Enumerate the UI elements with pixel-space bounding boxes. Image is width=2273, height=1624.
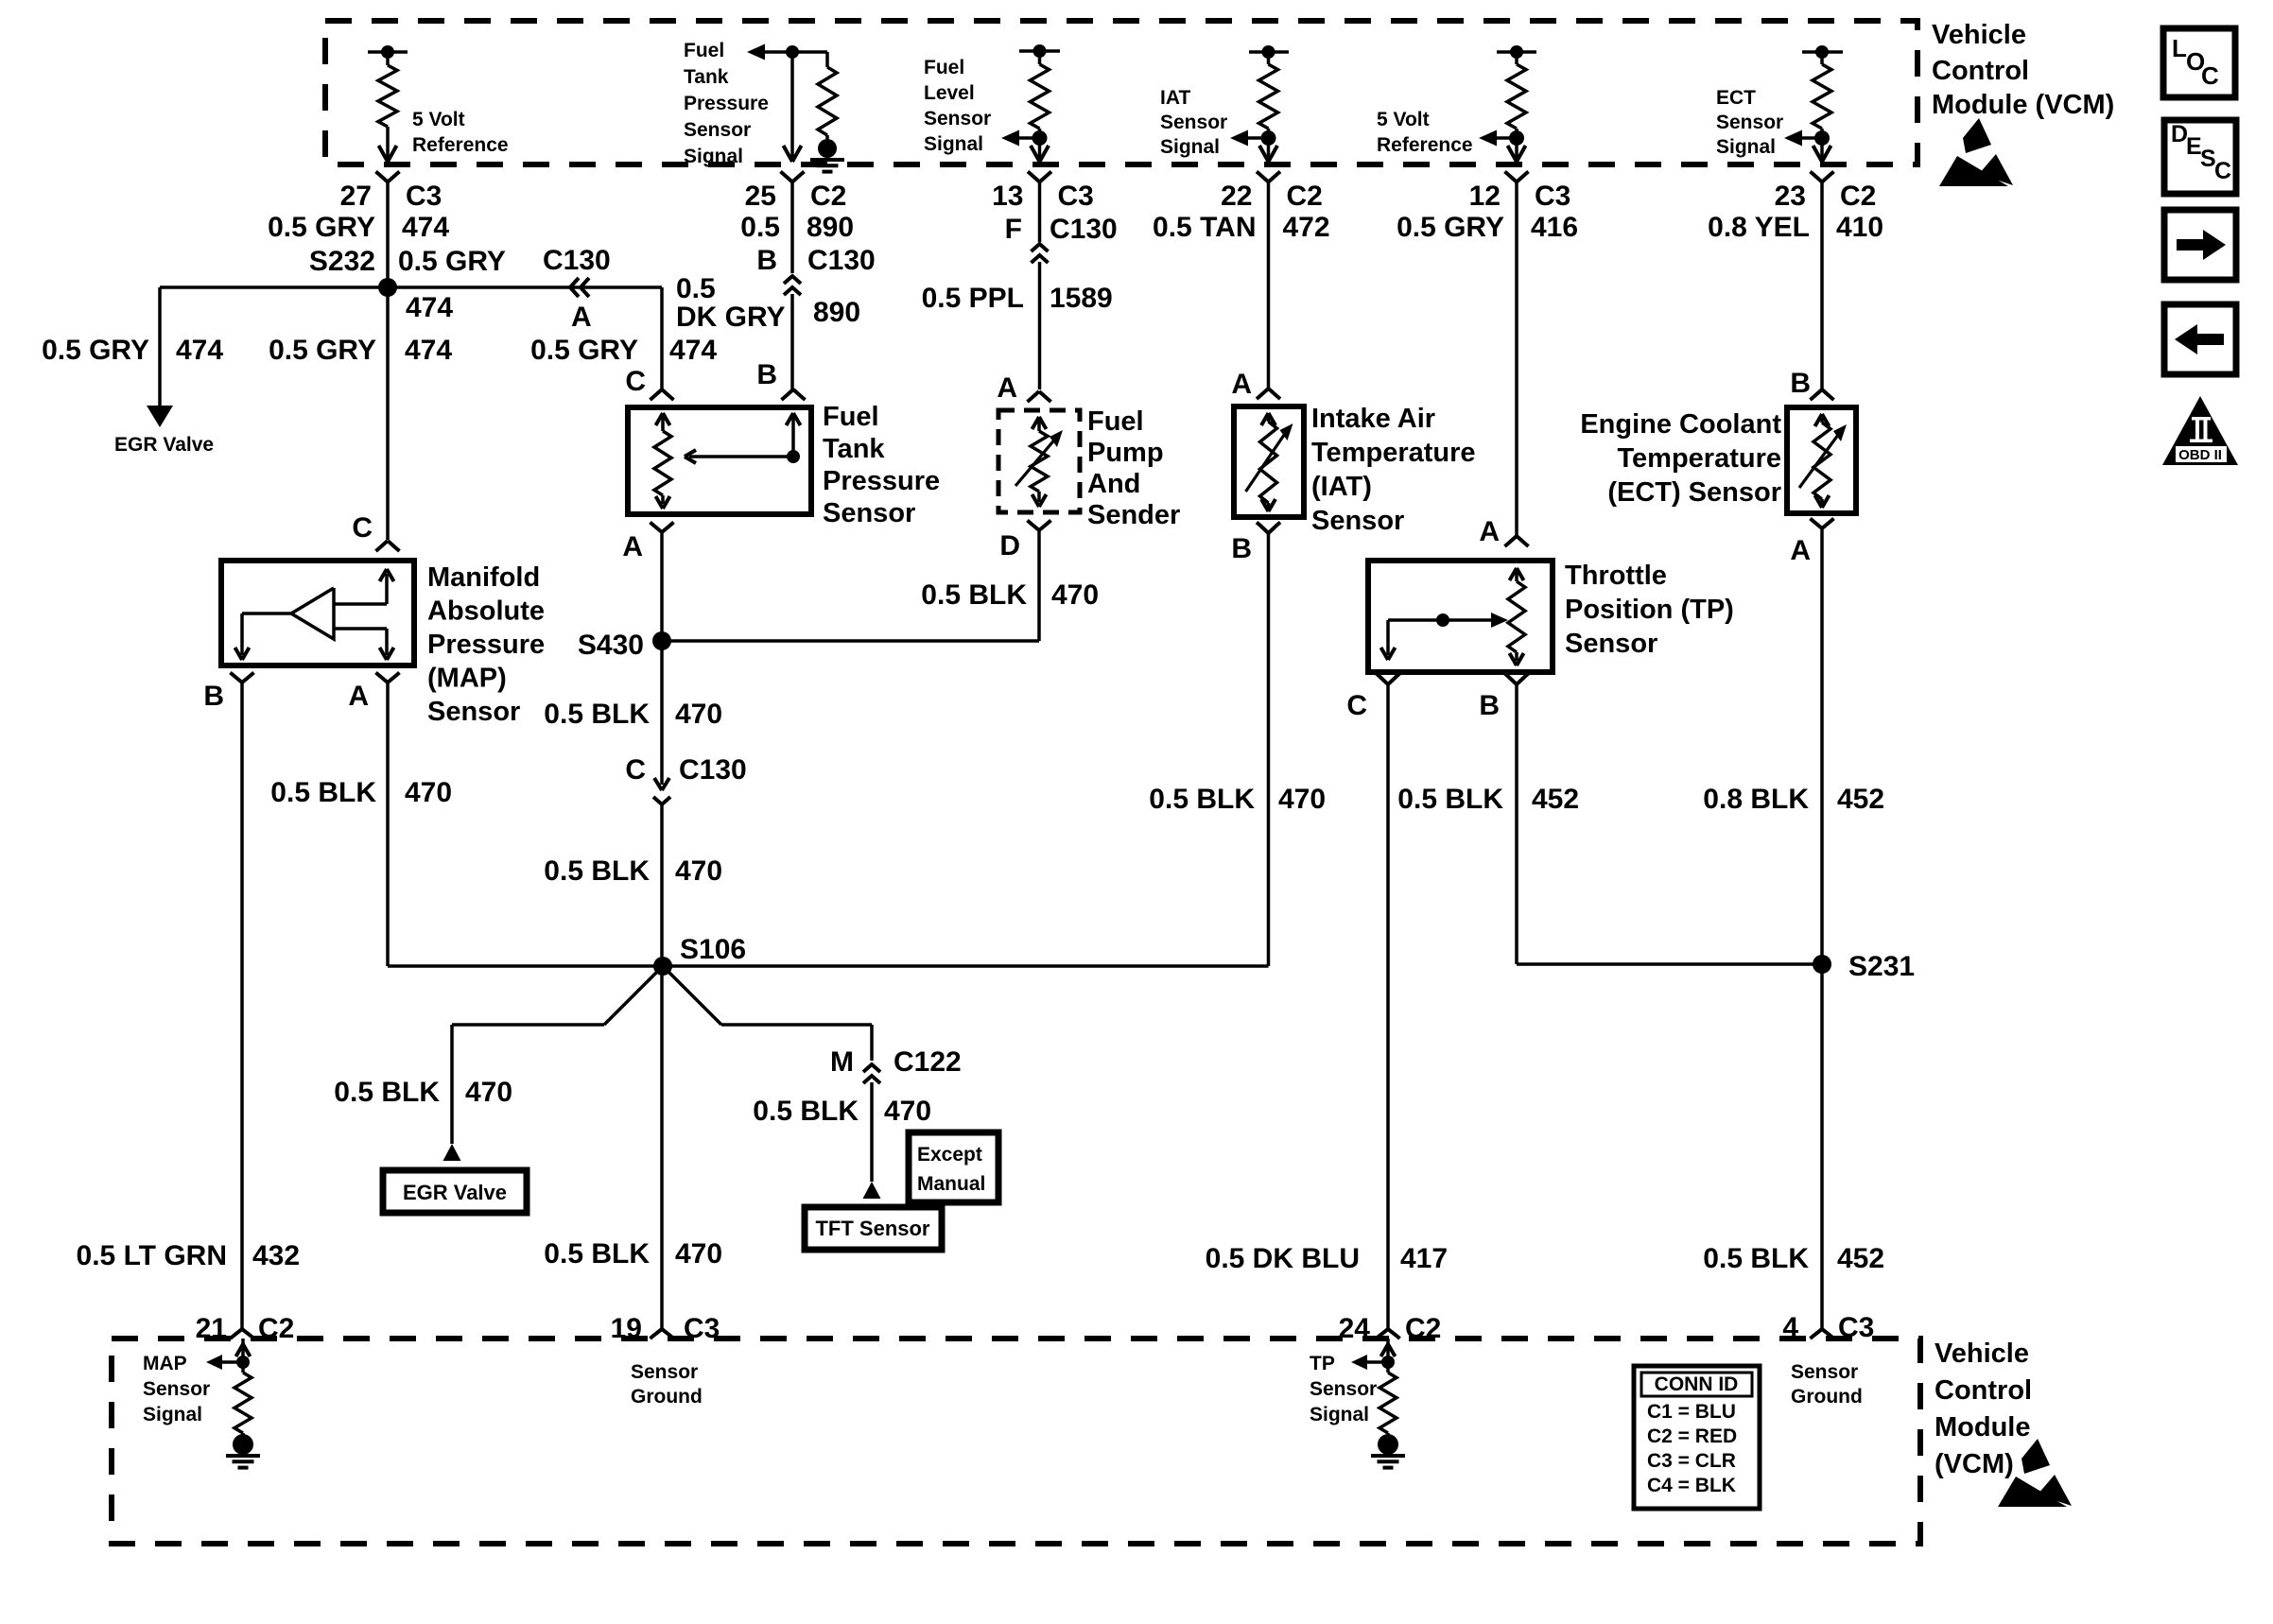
svg-text:0.5 BLK: 0.5 BLK — [1703, 1243, 1809, 1274]
svg-text:0.5 BLK: 0.5 BLK — [1149, 784, 1255, 815]
svg-text:417: 417 — [1400, 1243, 1448, 1274]
svg-text:B: B — [203, 681, 224, 712]
svg-text:Ground: Ground — [1791, 1386, 1863, 1408]
svg-text:C: C — [625, 366, 646, 397]
svg-text:410: 410 — [1836, 212, 1883, 243]
svg-text:0.5 DK BLU: 0.5 DK BLU — [1206, 1243, 1360, 1274]
svg-text:Absolute: Absolute — [427, 596, 545, 627]
svg-text:Intake Air: Intake Air — [1311, 404, 1435, 434]
svg-text:452: 452 — [1837, 784, 1884, 815]
svg-text:470: 470 — [675, 1238, 722, 1270]
svg-text:452: 452 — [1532, 784, 1579, 815]
svg-text:M: M — [830, 1046, 854, 1078]
svg-text:470: 470 — [405, 777, 452, 808]
svg-text:Sensor: Sensor — [924, 108, 991, 130]
svg-text:Sensor: Sensor — [684, 119, 751, 141]
svg-text:0.5 BLK: 0.5 BLK — [544, 699, 650, 730]
svg-text:472: 472 — [1283, 212, 1330, 243]
svg-text:Fuel: Fuel — [1087, 406, 1144, 437]
svg-text:C130: C130 — [807, 245, 876, 276]
svg-text:OBD II: OBD II — [2178, 447, 2222, 463]
svg-text:Signal: Signal — [1716, 136, 1776, 158]
svg-text:0.5 TAN: 0.5 TAN — [1153, 212, 1256, 243]
svg-text:0.5 GRY: 0.5 GRY — [268, 212, 375, 243]
svg-text:470: 470 — [1278, 784, 1326, 815]
svg-text:Sensor: Sensor — [1160, 112, 1227, 133]
svg-text:A: A — [348, 681, 369, 712]
svg-text:C3 = CLR: C3 = CLR — [1647, 1450, 1736, 1472]
svg-text:Module (VCM): Module (VCM) — [1932, 90, 2114, 120]
svg-text:C130: C130 — [679, 754, 747, 786]
svg-text:Manual: Manual — [917, 1173, 985, 1195]
svg-text:Vehicle: Vehicle — [1932, 20, 2026, 50]
svg-text:Sensor: Sensor — [1565, 629, 1657, 659]
svg-text:Ground: Ground — [631, 1386, 703, 1408]
svg-text:19: 19 — [611, 1313, 642, 1344]
svg-text:Pump: Pump — [1087, 438, 1164, 468]
svg-text:Signal: Signal — [143, 1404, 202, 1425]
svg-text:0.5 BLK: 0.5 BLK — [270, 777, 376, 808]
svg-text:Level: Level — [924, 82, 975, 104]
svg-text:13: 13 — [992, 181, 1023, 212]
svg-text:Vehicle: Vehicle — [1935, 1339, 2029, 1369]
svg-text:0.5 LT GRN: 0.5 LT GRN — [77, 1240, 227, 1271]
svg-text:Sensor: Sensor — [1310, 1378, 1377, 1400]
svg-text:C130: C130 — [543, 245, 611, 276]
svg-text:A: A — [1231, 369, 1252, 400]
svg-text:Sensor: Sensor — [1311, 506, 1404, 536]
svg-text:1589: 1589 — [1050, 283, 1113, 314]
svg-text:24: 24 — [1339, 1313, 1371, 1344]
svg-text:Sensor: Sensor — [1791, 1361, 1858, 1383]
svg-text:Sensor: Sensor — [427, 697, 520, 727]
svg-text:A: A — [571, 302, 592, 333]
svg-text:C: C — [2214, 158, 2231, 184]
svg-text:432: 432 — [252, 1240, 300, 1271]
svg-text:470: 470 — [675, 699, 722, 730]
svg-text:Sender: Sender — [1087, 500, 1180, 530]
svg-text:0.8 BLK: 0.8 BLK — [1703, 784, 1809, 815]
svg-text:Signal: Signal — [1160, 136, 1220, 158]
svg-text:Manifold: Manifold — [427, 562, 540, 593]
svg-text:C2: C2 — [258, 1313, 294, 1344]
svg-text:0.5: 0.5 — [676, 273, 716, 304]
svg-text:TFT Sensor: TFT Sensor — [815, 1217, 929, 1240]
svg-text:(IAT): (IAT) — [1311, 472, 1372, 502]
svg-text:0.5 GRY: 0.5 GRY — [530, 335, 638, 366]
svg-text:Position (TP): Position (TP) — [1565, 595, 1734, 625]
svg-text:0.5 BLK: 0.5 BLK — [334, 1077, 440, 1108]
svg-text:S106: S106 — [680, 934, 746, 965]
svg-text:0.5 GRY: 0.5 GRY — [1397, 212, 1504, 243]
svg-text:27: 27 — [340, 181, 372, 212]
svg-text:470: 470 — [1051, 579, 1099, 611]
svg-text:890: 890 — [807, 212, 854, 243]
svg-text:12: 12 — [1469, 181, 1501, 212]
svg-text:TP: TP — [1310, 1353, 1335, 1374]
svg-text:0.5 BLK: 0.5 BLK — [544, 855, 650, 887]
svg-text:470: 470 — [465, 1077, 512, 1108]
svg-text:Reference: Reference — [412, 134, 509, 156]
svg-text:C: C — [2201, 61, 2219, 90]
svg-text:C3: C3 — [1535, 181, 1570, 212]
svg-text:C2: C2 — [810, 181, 846, 212]
svg-text:474: 474 — [406, 292, 453, 323]
svg-text:C3: C3 — [1058, 181, 1094, 212]
svg-text:Engine Coolant: Engine Coolant — [1580, 409, 1781, 440]
svg-text:C3: C3 — [684, 1313, 720, 1344]
svg-text:0.8 YEL: 0.8 YEL — [1708, 212, 1810, 243]
svg-text:Fuel: Fuel — [684, 40, 724, 61]
svg-text:EGR Valve: EGR Valve — [114, 434, 214, 456]
svg-text:Sensor: Sensor — [823, 498, 915, 528]
svg-text:C3: C3 — [406, 181, 442, 212]
svg-text:Pressure: Pressure — [823, 466, 940, 496]
svg-text:And: And — [1087, 469, 1140, 499]
svg-text:C2 = RED: C2 = RED — [1647, 1425, 1737, 1447]
svg-text:23: 23 — [1775, 181, 1806, 212]
svg-text:C2: C2 — [1405, 1313, 1441, 1344]
svg-text:22: 22 — [1221, 181, 1252, 212]
svg-text:CONN ID: CONN ID — [1655, 1373, 1739, 1395]
svg-text:Tank: Tank — [684, 66, 729, 88]
svg-text:474: 474 — [669, 335, 717, 366]
svg-text:(MAP): (MAP) — [427, 664, 507, 694]
svg-text:0.5 PPL: 0.5 PPL — [922, 283, 1024, 314]
svg-text:Module: Module — [1935, 1412, 2031, 1443]
svg-text:Sensor: Sensor — [631, 1361, 698, 1383]
svg-text:A: A — [997, 372, 1017, 404]
svg-text:0.5 GRY: 0.5 GRY — [269, 335, 376, 366]
svg-text:0.5 GRY: 0.5 GRY — [42, 335, 149, 366]
svg-text:(VCM): (VCM) — [1935, 1449, 2014, 1479]
svg-text:0.5 BLK: 0.5 BLK — [1397, 784, 1503, 815]
svg-text:B: B — [756, 359, 777, 390]
svg-text:A: A — [1790, 535, 1811, 566]
svg-text:Signal: Signal — [924, 133, 983, 155]
svg-text:B: B — [1479, 690, 1500, 721]
svg-text:S232: S232 — [309, 246, 375, 277]
svg-text:MAP: MAP — [143, 1353, 187, 1374]
svg-text:0.5: 0.5 — [740, 212, 780, 243]
svg-text:Signal: Signal — [1310, 1404, 1369, 1425]
svg-text:DK GRY: DK GRY — [676, 302, 786, 333]
svg-text:Except: Except — [917, 1144, 982, 1166]
svg-text:D: D — [999, 530, 1020, 561]
svg-text:A: A — [622, 531, 643, 562]
svg-text:B: B — [1790, 368, 1811, 399]
svg-text:B: B — [1231, 533, 1252, 564]
svg-text:(ECT) Sensor: (ECT) Sensor — [1607, 477, 1781, 508]
svg-text:474: 474 — [405, 335, 452, 366]
svg-text:Reference: Reference — [1377, 134, 1473, 156]
svg-text:452: 452 — [1837, 1243, 1884, 1274]
svg-text:470: 470 — [675, 855, 722, 887]
svg-text:C130: C130 — [1050, 214, 1118, 245]
svg-text:Control: Control — [1935, 1375, 2032, 1406]
svg-text:470: 470 — [884, 1096, 931, 1127]
svg-text:5 Volt: 5 Volt — [412, 109, 465, 130]
svg-text:25: 25 — [745, 181, 776, 212]
svg-text:C2: C2 — [1287, 181, 1323, 212]
svg-text:IAT: IAT — [1160, 87, 1190, 109]
svg-text:A: A — [1479, 516, 1500, 547]
svg-text:Tank: Tank — [823, 434, 885, 464]
svg-text:5 Volt: 5 Volt — [1377, 109, 1430, 130]
svg-text:Temperature: Temperature — [1311, 438, 1476, 468]
svg-text:C2: C2 — [1840, 181, 1876, 212]
svg-text:Pressure: Pressure — [684, 93, 769, 114]
svg-text:890: 890 — [813, 297, 860, 328]
svg-text:0.5 BLK: 0.5 BLK — [921, 579, 1027, 611]
svg-text:4: 4 — [1782, 1312, 1798, 1343]
svg-text:ECT: ECT — [1716, 87, 1756, 109]
svg-text:474: 474 — [402, 212, 449, 243]
svg-text:0.5 BLK: 0.5 BLK — [753, 1096, 859, 1127]
svg-text:B: B — [756, 245, 777, 276]
svg-text:Pressure: Pressure — [427, 630, 545, 660]
svg-text:0.5 BLK: 0.5 BLK — [544, 1238, 650, 1270]
svg-text:474: 474 — [176, 335, 223, 366]
svg-text:S430: S430 — [578, 630, 644, 661]
svg-text:F: F — [1005, 214, 1022, 245]
svg-text:C: C — [1346, 690, 1367, 721]
svg-text:C1 = BLU: C1 = BLU — [1647, 1401, 1736, 1423]
svg-text:C: C — [625, 754, 646, 786]
svg-text:21: 21 — [196, 1313, 227, 1344]
svg-text:Sensor: Sensor — [143, 1378, 210, 1400]
svg-text:Fuel: Fuel — [924, 57, 964, 78]
svg-text:C: C — [352, 512, 373, 544]
svg-text:L: L — [2172, 34, 2187, 62]
svg-text:Control: Control — [1932, 56, 2029, 86]
svg-text:S231: S231 — [1848, 951, 1915, 982]
svg-text:EGR Valve: EGR Valve — [403, 1181, 507, 1204]
svg-text:Throttle: Throttle — [1565, 561, 1667, 591]
svg-text:0.5 GRY: 0.5 GRY — [398, 246, 506, 277]
svg-text:C4 = BLK: C4 = BLK — [1647, 1475, 1736, 1496]
svg-text:Sensor: Sensor — [1716, 112, 1783, 133]
svg-text:416: 416 — [1531, 212, 1578, 243]
svg-text:C3: C3 — [1838, 1312, 1874, 1343]
svg-text:C122: C122 — [894, 1046, 962, 1078]
svg-text:Signal: Signal — [684, 146, 743, 167]
svg-text:Temperature: Temperature — [1617, 443, 1781, 474]
svg-text:Fuel: Fuel — [823, 402, 879, 432]
